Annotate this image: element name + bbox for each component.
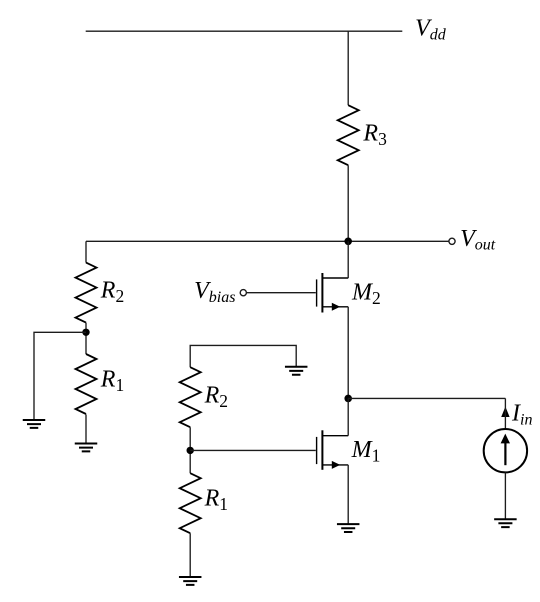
transistor M1 <box>317 430 349 470</box>
terminal Vbias <box>240 290 246 296</box>
current source Iin circle <box>484 429 527 472</box>
wire node to current source <box>348 397 505 399</box>
ground below M1 <box>337 524 360 532</box>
wire R2 to R1 <box>85 323 87 354</box>
wire Vdd rail <box>86 30 403 32</box>
node R1/R2 junction left <box>82 329 89 336</box>
ground mid <box>285 367 308 375</box>
ground left <box>23 420 46 428</box>
wire junction to left ground <box>34 332 86 420</box>
terminal Vout <box>449 238 455 244</box>
wire into current source <box>504 398 506 429</box>
ground below current source <box>494 519 517 527</box>
ground below R1 left <box>75 444 98 452</box>
wire M1 drain up <box>347 398 349 435</box>
transistor M2 <box>317 273 349 313</box>
wire Vdd to R3 <box>347 31 349 105</box>
wire R3 to output node <box>347 165 349 241</box>
wire M1 source to ground <box>347 465 349 524</box>
wire M2 drain up <box>347 241 349 278</box>
resistor R1 mid <box>180 473 201 533</box>
resistor R2 mid <box>180 367 201 427</box>
wire R2 mid to R1 mid <box>189 427 191 473</box>
wire junction to M1 gate <box>190 449 316 451</box>
wire left branch down to R2 <box>85 241 87 262</box>
resistor R3 <box>338 105 359 165</box>
wire M2 source down <box>347 307 349 399</box>
node R1/R2 junction mid <box>187 447 194 454</box>
wire current source to ground <box>504 472 506 519</box>
node M2 source / M1 drain <box>344 395 352 403</box>
resistor R1 left <box>76 354 97 414</box>
wire Vbias to M2 gate <box>247 292 316 294</box>
wire R1 to ground <box>85 414 87 443</box>
current source arrow <box>504 443 506 465</box>
ground below R1 mid <box>179 577 202 585</box>
node output junction <box>344 238 352 246</box>
resistor R2 left <box>76 263 97 323</box>
arrow Iin on wire <box>501 407 509 417</box>
wire R1 mid to ground <box>189 533 191 577</box>
wire output row (left corner to Vout terminal) <box>86 240 449 242</box>
wire mid subcircuit top <box>190 345 296 367</box>
